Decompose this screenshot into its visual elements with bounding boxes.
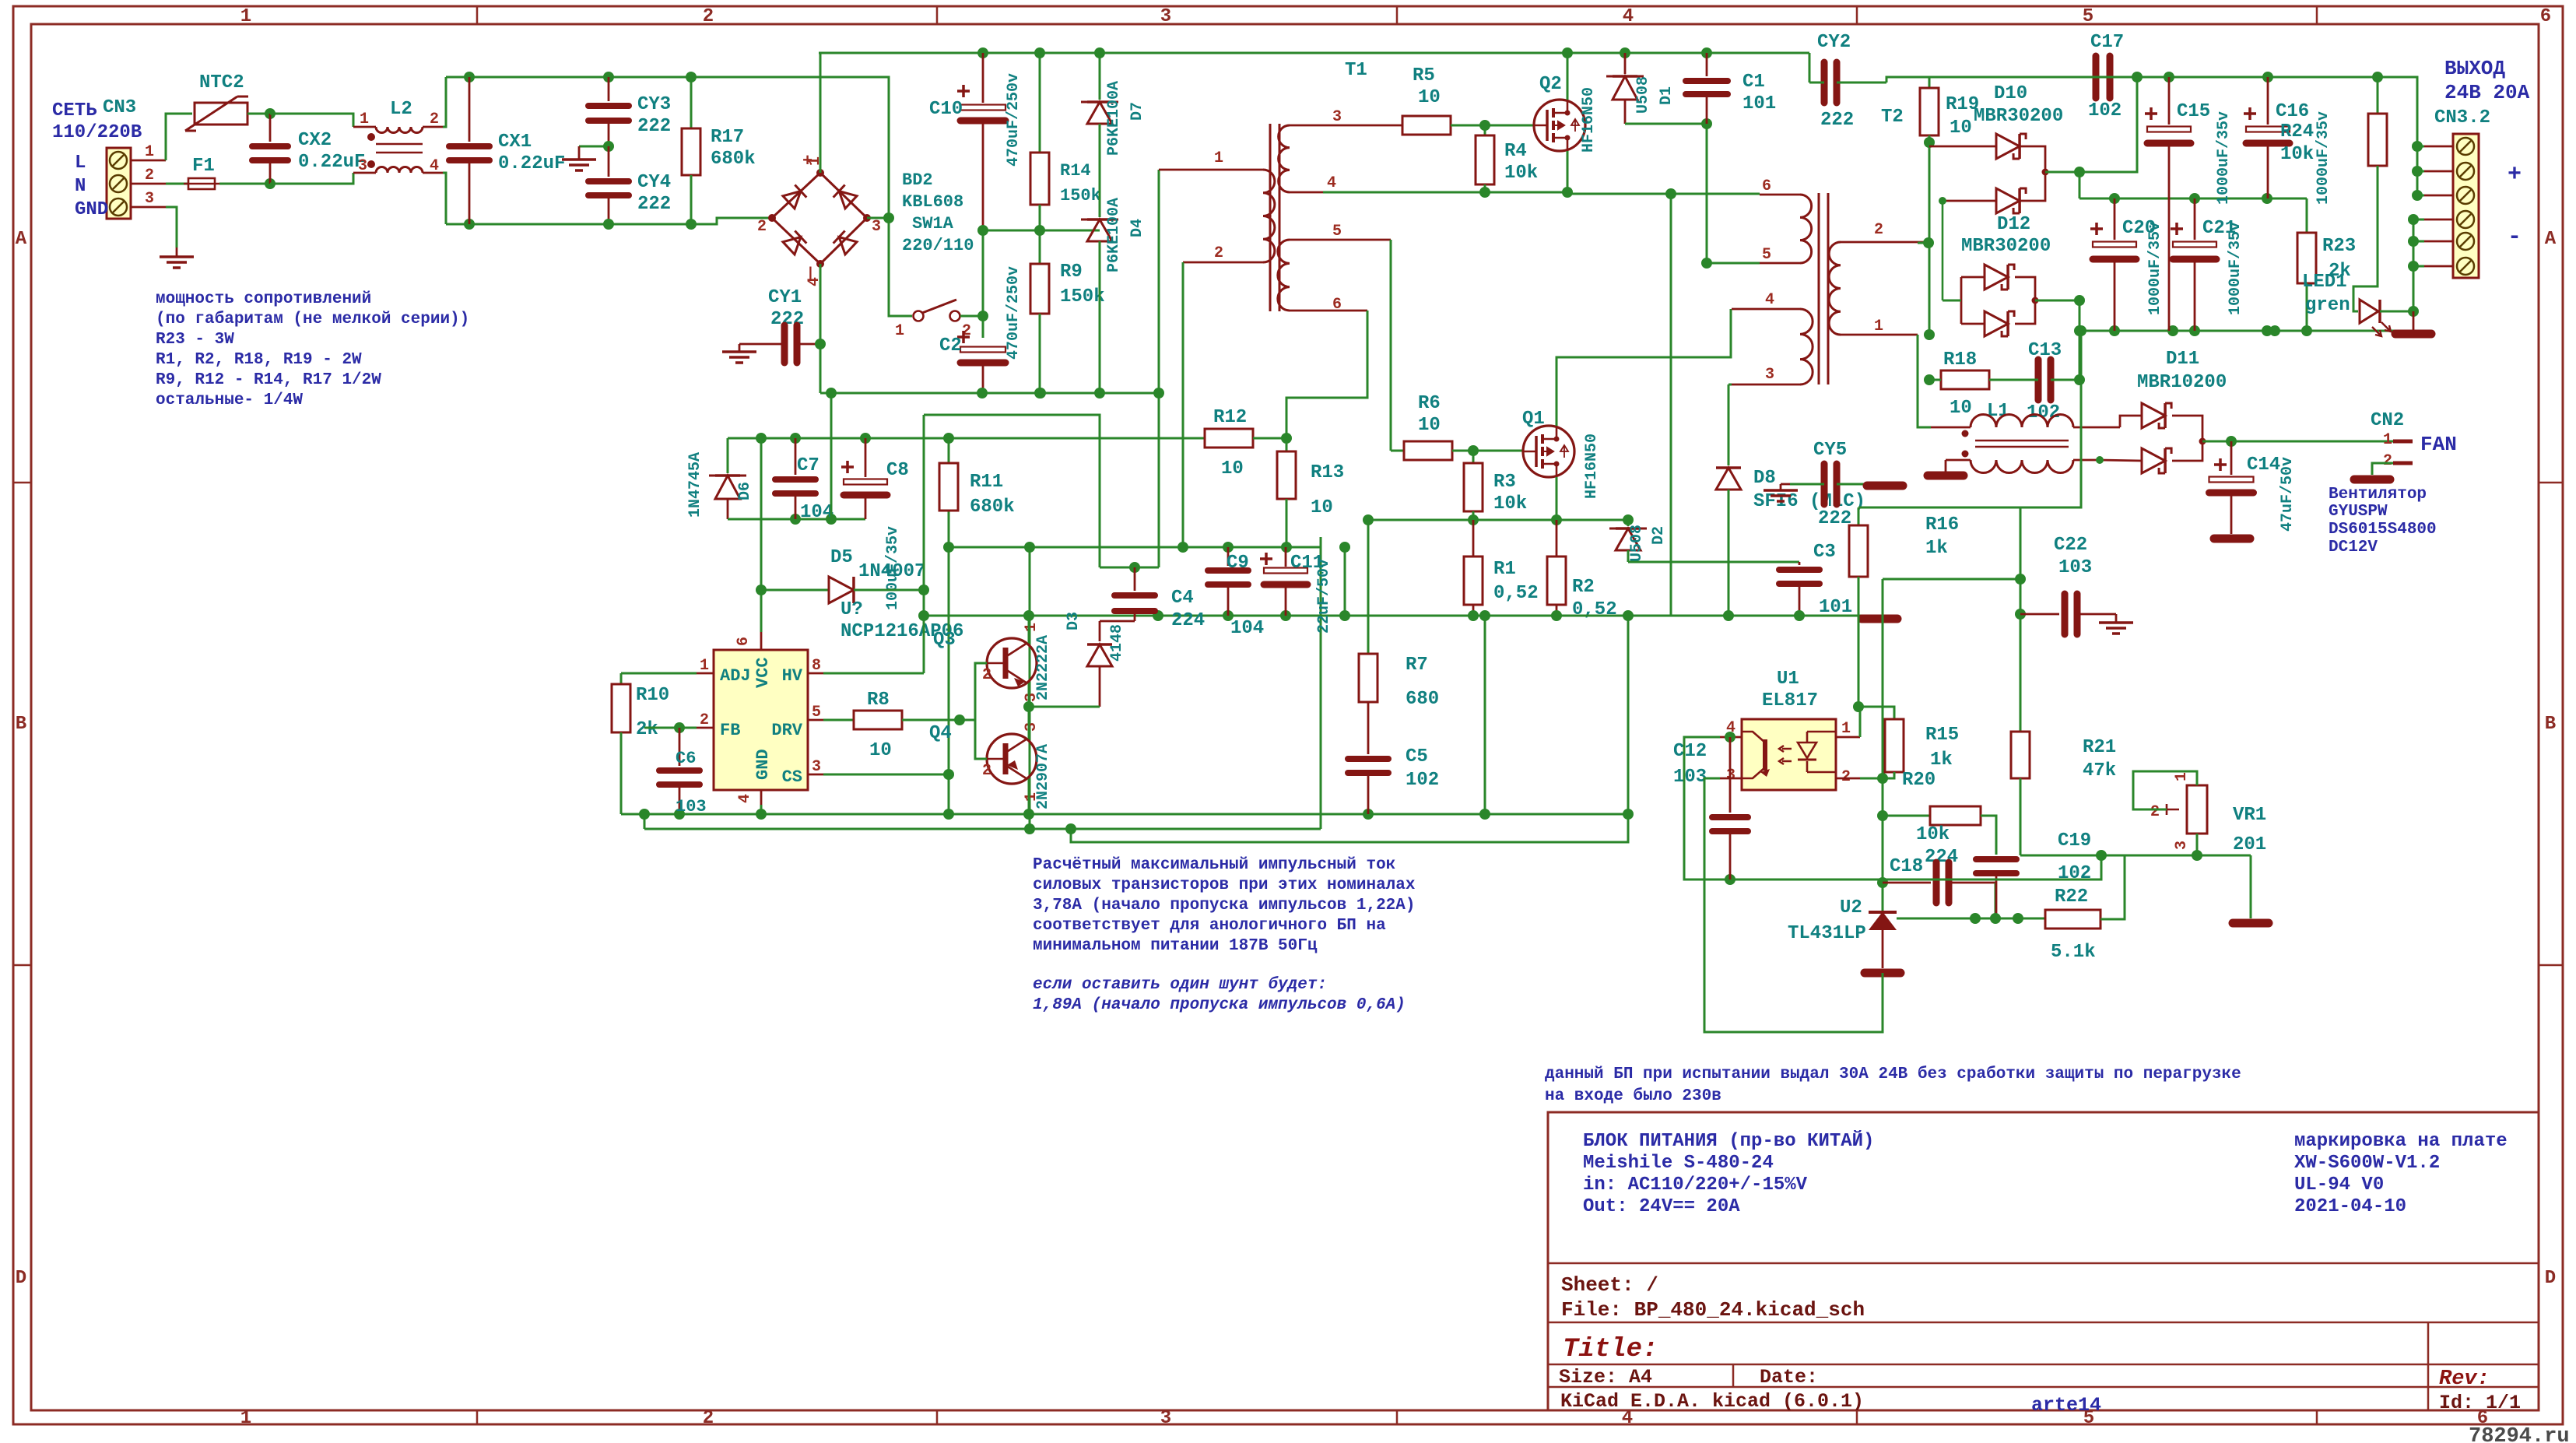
svg-text:1,89А (начало пропуска импульс: 1,89А (начало пропуска импульсов 0,6А)	[1033, 996, 1406, 1014]
resistor R12 in vcc rail	[1205, 429, 1253, 448]
svg-text:R5: R5	[1413, 65, 1435, 86]
wire emitter row to D3	[1029, 706, 1100, 708]
svg-text:R1, R2, R18, R19 - 2W: R1, R2, R18, R19 - 2W	[156, 351, 362, 369]
wire CN2 pin2 ground	[2372, 463, 2393, 475]
mid rail y703	[949, 546, 1321, 549]
svg-text:L: L	[75, 153, 86, 174]
svg-text:222: 222	[637, 194, 671, 215]
svg-text:5: 5	[1762, 246, 1771, 264]
svg-text:6: 6	[735, 637, 753, 646]
transistor Q2 HF16N50	[1534, 100, 1585, 151]
wire Q2 drain to rail	[1567, 53, 1569, 100]
svg-text:FB: FB	[720, 721, 740, 740]
svg-text:C19: C19	[2058, 830, 2091, 851]
svg-text:4: 4	[1623, 6, 1634, 27]
resistor R24	[2377, 77, 2379, 114]
wire C1 junction down across pin6 rail	[1706, 124, 1708, 194]
svg-text:Q3: Q3	[933, 630, 956, 651]
wire T2 pin5	[1707, 262, 1760, 265]
wire output sense riser	[2020, 331, 2081, 732]
schottky D12b lower pair	[1961, 323, 1985, 325]
svg-text:FAN: FAN	[2420, 433, 2457, 456]
wire T2 pin2 junction	[1918, 242, 1929, 244]
svg-text:2: 2	[982, 666, 991, 684]
svg-text:R2: R2	[1572, 577, 1595, 598]
resistor R3	[1472, 451, 1475, 463]
wire TL431 column	[1882, 579, 1884, 912]
wire R21 bottom rail	[2020, 855, 2251, 857]
svg-text:R1: R1	[1493, 559, 1516, 580]
ground CY1	[739, 343, 755, 346]
zener D1 U508	[1620, 47, 1630, 58]
wire HV riser	[923, 415, 925, 673]
svg-text:2: 2	[1214, 244, 1223, 262]
svg-text:3: 3	[1023, 722, 1041, 732]
svg-text:-: -	[2508, 224, 2522, 251]
svg-text:2: 2	[703, 6, 714, 27]
wire Q4 emitter to gnd rail	[1028, 779, 1030, 814]
svg-text:10: 10	[869, 740, 892, 761]
svg-text:102: 102	[2027, 402, 2060, 423]
svg-text:103: 103	[1673, 767, 1707, 788]
svg-text:3: 3	[358, 157, 367, 175]
svg-text:P6KE100A: P6KE100A	[1105, 81, 1123, 156]
svg-text:D12: D12	[1997, 214, 2030, 235]
svg-text:3,78А (начало пропуска импульс: 3,78А (начало пропуска импульсов 1,22А)	[1033, 897, 1415, 915]
svg-text:UL-94 V0: UL-94 V0	[2294, 1174, 2384, 1195]
svg-text:CN3.2: CN3.2	[2434, 107, 2490, 128]
svg-text:MBR30200: MBR30200	[1961, 236, 2051, 257]
resistor R11	[948, 438, 950, 463]
resistor R8	[854, 711, 902, 729]
riser y703 to y791 short	[1344, 547, 1346, 616]
svg-text:R15: R15	[1925, 725, 1959, 746]
svg-text:4: 4	[1765, 291, 1774, 309]
riser R11 CS column	[948, 511, 950, 814]
wire bridge pin4 down	[819, 264, 822, 393]
svg-text:8: 8	[812, 657, 821, 675]
resistor R2 shunt	[1556, 520, 1558, 556]
svg-text:102: 102	[2058, 863, 2091, 884]
wire R16 top link	[1858, 507, 2020, 509]
wire D1 to C1 junction	[1625, 123, 1707, 125]
svg-text:T1: T1	[1345, 60, 1367, 81]
wire CX2 to L2 pin1	[270, 114, 353, 127]
svg-text:0,52: 0,52	[1493, 583, 1539, 604]
wire D5 net to C4 node	[924, 415, 1100, 567]
svg-text:2: 2	[700, 711, 709, 729]
svg-text:3: 3	[1023, 693, 1041, 702]
svg-text:104: 104	[1230, 618, 1264, 639]
wire rail to bridge column	[691, 77, 912, 316]
fuse F1	[166, 183, 188, 185]
svg-text:3: 3	[1332, 108, 1342, 126]
T1 aux winding pins 5,6	[1290, 239, 1391, 241]
svg-text:5: 5	[2083, 6, 2093, 27]
svg-text:+: +	[2508, 162, 2522, 188]
svg-text:C10: C10	[929, 99, 963, 120]
svg-text:78294.ru: 78294.ru	[2469, 1425, 2570, 1443]
svg-text:D10: D10	[1994, 83, 2027, 104]
svg-text:CX1: CX1	[498, 132, 532, 153]
svg-text:102: 102	[2088, 100, 2122, 121]
svg-text:HV: HV	[782, 666, 803, 686]
connector CN3	[107, 148, 131, 219]
resistor R7	[1367, 520, 1370, 654]
wire gate to Q1	[1473, 450, 1523, 452]
resistor R16	[1858, 507, 1860, 525]
svg-text:СЕТЬ: СЕТЬ	[52, 100, 97, 121]
wire T2 pin3 down to D8	[1728, 384, 1732, 386]
wire T1 pin1 riser	[1158, 170, 1160, 567]
svg-text:MBR30200: MBR30200	[1974, 106, 2063, 127]
node gate Q1	[1468, 445, 1479, 456]
capacitor C14	[2214, 458, 2227, 471]
svg-text:101: 101	[1742, 93, 1776, 114]
wire input bottom rail	[446, 218, 772, 224]
title block	[1548, 1112, 2539, 1410]
svg-text:R7: R7	[1406, 655, 1428, 676]
svg-text:R13: R13	[1311, 462, 1344, 483]
svg-text:NTC2: NTC2	[199, 72, 244, 93]
wire Q4 collector	[1028, 707, 1030, 739]
T2 secondary winding 2-1	[1841, 241, 1928, 244]
pin 1 ADJ	[697, 672, 714, 675]
wire Q3 emitter junction	[1028, 683, 1030, 707]
resistor R20	[1883, 815, 1930, 817]
svg-text:KBL608: KBL608	[902, 192, 963, 212]
wire T1 pin4 to source rail	[1323, 191, 1567, 194]
resistor R4	[1484, 125, 1486, 135]
svg-text:222: 222	[1820, 110, 1854, 131]
svg-text:10k: 10k	[1916, 824, 1950, 845]
svg-text:D: D	[2545, 1268, 2556, 1289]
svg-text:2k: 2k	[636, 719, 658, 740]
svg-text:10k: 10k	[1493, 493, 1527, 514]
svg-text:Meishile S-480-24: Meishile S-480-24	[1583, 1153, 1774, 1174]
pin 4 GND	[760, 790, 763, 805]
resistor R1 shunt	[1472, 520, 1475, 556]
resistor R19	[1929, 76, 2137, 79]
svg-text:Rev:: Rev:	[2439, 1368, 2490, 1391]
wire C1 column to pin5	[1706, 194, 1708, 263]
pin 5 DRV	[808, 719, 823, 721]
thermistor NTC2	[195, 103, 247, 125]
primary ground rail y791	[924, 615, 1879, 617]
wire VR1 pin1 to wiper	[2133, 771, 2197, 809]
svg-text:R6: R6	[1418, 393, 1441, 414]
secondary gnd mid rail y255	[2079, 198, 2307, 200]
svg-text:U508: U508	[1628, 525, 1646, 562]
T1 secondary top pins 3,4	[1290, 125, 1401, 127]
wire mid rail	[983, 230, 1100, 232]
svg-text:HF16N50: HF16N50	[1580, 87, 1598, 153]
transistor Q1 HF16N50	[1523, 426, 1574, 477]
wire Q1 source down	[1556, 477, 1558, 520]
wire U1 pin3 loop to TL431 anode	[1704, 778, 1883, 1032]
node junction CY3 CY4	[603, 141, 614, 152]
svg-text:R22: R22	[2055, 887, 2088, 908]
svg-text:F1: F1	[192, 156, 215, 177]
resistor R13	[1286, 438, 1288, 451]
svg-text:U1: U1	[1777, 669, 1799, 690]
wire T1 pin5 riser to R6	[1390, 240, 1392, 451]
transistor Q3 2N2222A	[987, 638, 1037, 688]
svg-text:3: 3	[2173, 841, 2191, 850]
svg-text:C4: C4	[1171, 588, 1194, 609]
wire Q1 drain up to T2 pin4	[1556, 309, 1731, 426]
wire plus pins bridge	[2412, 141, 2423, 152]
resistor R5	[1401, 125, 1402, 127]
wire Q1 source net riser	[1670, 194, 1672, 616]
svg-text:Id: 1/1: Id: 1/1	[2439, 1392, 2521, 1414]
svg-text:C15: C15	[2177, 101, 2210, 122]
svg-text:силовых транзисторов при этих: силовых транзисторов при этих номиналах	[1033, 876, 1416, 894]
wire ref rail	[1897, 918, 2045, 920]
svg-text:10: 10	[1418, 415, 1441, 436]
svg-text:R12: R12	[1213, 407, 1247, 428]
svg-text:220/110: 220/110	[902, 236, 974, 255]
svg-text:EL817: EL817	[1762, 690, 1818, 711]
svg-text:на входе было 230в: на входе было 230в	[1545, 1087, 1721, 1105]
svg-text:D7: D7	[1128, 102, 1146, 121]
svg-text:мощность сопротивлений: мощность сопротивлений	[156, 290, 371, 308]
wire D4 down to rail505	[1099, 241, 1101, 393]
svg-text:GND: GND	[75, 199, 108, 220]
svg-text:N: N	[75, 176, 86, 197]
capacitor C2	[957, 331, 970, 343]
svg-text:HF16N50: HF16N50	[1583, 434, 1601, 499]
svg-text:C1: C1	[1742, 72, 1765, 93]
svg-text:3: 3	[812, 758, 821, 776]
svg-text:2021-04-10: 2021-04-10	[2294, 1196, 2406, 1217]
node R5 gate	[1479, 120, 1490, 131]
svg-text:CX2: CX2	[298, 130, 332, 151]
wire minus pins bridge	[2413, 219, 2415, 311]
pin 3 CS	[808, 774, 823, 776]
wire CY2 to C17	[1886, 77, 2085, 83]
primary return rail y505	[820, 392, 1159, 395]
capacitor C15	[2168, 77, 2171, 125]
wire LED cathode to minus node	[2380, 311, 2413, 313]
main HV rail top	[819, 52, 1809, 54]
svg-text:БЛОК ПИТАНИЯ (пр-во КИТАЙ): БЛОК ПИТАНИЯ (пр-во КИТАЙ)	[1583, 1130, 1874, 1152]
svg-text:D: D	[16, 1268, 26, 1289]
svg-text:4: 4	[1327, 174, 1336, 192]
svg-text:если оставить один шунт будет:: если оставить один шунт будет:	[1033, 976, 1327, 994]
svg-text:4: 4	[736, 794, 754, 803]
svg-text:R4: R4	[1504, 141, 1527, 162]
svg-text:A: A	[2545, 229, 2557, 250]
svg-text:in: AC110/220+/-15%V: in: AC110/220+/-15%V	[1583, 1174, 1808, 1195]
svg-text:22uF/50v: 22uF/50v	[1315, 559, 1333, 634]
svg-text:680: 680	[1406, 689, 1439, 710]
base bracket Q3 Q4	[975, 663, 987, 759]
svg-text:1: 1	[700, 657, 709, 675]
svg-text:2: 2	[703, 1408, 714, 1429]
ground CY5 left	[1781, 483, 1790, 486]
svg-text:0,52: 0,52	[1572, 599, 1617, 620]
svg-text:2: 2	[2150, 803, 2160, 821]
svg-text:C12: C12	[1673, 741, 1707, 762]
svg-text:(по габаритам (не мелкой серии: (по габаритам (не мелкой серии))	[156, 311, 469, 328]
ground mid Y caps	[579, 146, 609, 148]
svg-text:C2: C2	[939, 335, 962, 356]
capacitor C6	[674, 722, 685, 733]
svg-text:U508: U508	[1634, 76, 1652, 114]
pin 2 FB	[697, 727, 714, 729]
svg-text:R3: R3	[1493, 472, 1516, 493]
svg-text:D1: D1	[1658, 86, 1676, 105]
wire source rail to T2 pin6	[1567, 193, 1760, 195]
ground input	[176, 248, 178, 257]
lower return bus	[644, 828, 1321, 830]
svg-text:2: 2	[145, 167, 154, 184]
wire T1 pin2 riser	[1182, 262, 1184, 547]
capacitor C11	[1285, 547, 1287, 567]
pin 6 VCC	[760, 632, 763, 650]
svg-text:101: 101	[1819, 597, 1852, 618]
wire D12 anode riser	[1942, 201, 1944, 300]
svg-text:470uF/250v: 470uF/250v	[1005, 266, 1023, 360]
tvs diode D7	[1094, 47, 1105, 58]
svg-text:R21: R21	[2083, 737, 2116, 758]
svg-text:U2: U2	[1840, 897, 1862, 918]
svg-text:BD2: BD2	[902, 170, 933, 190]
wire CN3 pin1 to NTC2	[166, 114, 192, 160]
svg-text:470uF/250v: 470uF/250v	[1005, 73, 1023, 167]
svg-text:TL431LP: TL431LP	[1788, 923, 1866, 944]
diode D3 4148	[1100, 620, 1135, 623]
svg-text:1: 1	[2383, 431, 2392, 449]
svg-text:4148: 4148	[1108, 624, 1126, 662]
svg-text:Q1: Q1	[1522, 409, 1545, 430]
svg-text:A: A	[16, 229, 27, 250]
svg-text:C22: C22	[2054, 535, 2087, 556]
svg-text:5: 5	[1332, 223, 1342, 240]
svg-text:Sheet: /: Sheet: /	[1561, 1273, 1658, 1297]
svg-text:680k: 680k	[970, 497, 1015, 518]
svg-text:R24: R24	[2280, 121, 2314, 142]
svg-text:1000uF/35v: 1000uF/35v	[2227, 222, 2244, 315]
svg-text:KiCad E.D.A. kicad (6.0.1): KiCad E.D.A. kicad (6.0.1)	[1560, 1390, 1864, 1413]
svg-text:47k: 47k	[2083, 760, 2116, 781]
svg-text:C16: C16	[2276, 101, 2309, 122]
svg-text:2N2222A: 2N2222A	[1034, 635, 1052, 700]
svg-text:CY2: CY2	[1817, 32, 1851, 53]
svg-text:R10: R10	[636, 685, 669, 706]
svg-text:C7: C7	[797, 455, 819, 476]
svg-text:маркировка на плате: маркировка на плате	[2294, 1131, 2508, 1152]
svg-text:R20: R20	[1902, 770, 1936, 791]
svg-text:3: 3	[872, 218, 881, 236]
capacitor C8	[865, 438, 867, 477]
wire VR1 pin3 down	[2196, 834, 2199, 855]
svg-text:1: 1	[1214, 149, 1223, 167]
capacitor C7	[795, 438, 797, 475]
ground pad CY5 right	[1867, 482, 1903, 490]
capacitor CX2	[269, 114, 272, 142]
resistor R17	[686, 72, 697, 83]
node junction CX2 top	[265, 108, 275, 119]
capacitor C20	[2114, 198, 2116, 240]
svg-text:DRV: DRV	[771, 721, 802, 740]
snubber diode D2 U508	[1627, 520, 1630, 526]
wire NTC2 to CX2 node	[247, 113, 270, 115]
svg-text:GYUSPW: GYUSPW	[2329, 503, 2388, 521]
svg-text:1: 1	[806, 156, 824, 166]
svg-text:CY3: CY3	[637, 94, 671, 115]
tvs diode D4	[1087, 219, 1112, 241]
svg-text:данный БП при испытании выдал: данный БП при испытании выдал 30А 24В бе…	[1545, 1066, 2241, 1083]
wire CX2 to L2 pin3	[270, 173, 353, 184]
wire D7 to D4	[1099, 124, 1101, 217]
svg-text:0.22uF: 0.22uF	[298, 152, 365, 173]
resistor R21	[2011, 732, 2030, 778]
svg-text:2: 2	[1874, 221, 1883, 239]
svg-text:соответствует для анологичного: соответствует для анологичного БП на	[1033, 917, 1386, 935]
svg-text:R16: R16	[1925, 514, 1959, 535]
svg-text:224: 224	[1925, 847, 1958, 868]
svg-text:CS: CS	[782, 767, 802, 787]
svg-text:D6: D6	[736, 482, 754, 500]
svg-text:1: 1	[240, 1408, 251, 1429]
svg-text:110/220В: 110/220В	[52, 122, 142, 143]
svg-text:gren: gren	[2305, 295, 2350, 316]
svg-text:222: 222	[1818, 508, 1851, 529]
svg-text:2: 2	[1841, 768, 1851, 786]
svg-text:CN3: CN3	[103, 97, 136, 118]
wire D11 cathodes join	[2172, 416, 2202, 461]
vertical x2672 segments	[2079, 172, 2081, 198]
svg-text:R11: R11	[970, 472, 1003, 493]
svg-text:0.22uF: 0.22uF	[498, 153, 565, 174]
svg-text:1: 1	[2173, 772, 2191, 781]
svg-text:DS6015S4800: DS6015S4800	[2329, 521, 2437, 539]
svg-text:D8: D8	[1753, 468, 1776, 489]
wire Q3 collector to rail791	[1028, 616, 1030, 643]
capacitor C9	[1227, 547, 1230, 566]
ground LED	[2413, 311, 2415, 330]
wire D10 D12 cathodes join	[2020, 146, 2045, 201]
svg-text:T2: T2	[1881, 107, 1904, 128]
svg-text:1: 1	[360, 111, 369, 128]
bridge rectifier BD2	[772, 173, 867, 264]
svg-text:U?: U?	[841, 599, 863, 620]
node R1R2 junction risers	[1484, 616, 1486, 814]
T2 winding 6-5	[1760, 194, 1800, 196]
svg-text:3: 3	[1160, 1408, 1171, 1429]
capacitor C4	[1134, 567, 1136, 591]
ground pad L1 left	[1945, 460, 1947, 472]
svg-text:D2: D2	[1650, 526, 1668, 545]
svg-text:6: 6	[1332, 296, 1342, 314]
svg-text:1: 1	[240, 6, 251, 27]
svg-text:103: 103	[2058, 557, 2092, 578]
svg-text:1: 1	[1874, 318, 1883, 335]
svg-text:DC12V: DC12V	[2329, 539, 2378, 556]
svg-text:3: 3	[1765, 366, 1774, 384]
svg-text:5: 5	[812, 704, 821, 721]
resistor R9	[1039, 230, 1041, 264]
svg-text:C8: C8	[886, 460, 909, 481]
svg-text:1: 1	[895, 322, 904, 340]
svg-text:L2: L2	[390, 99, 412, 120]
svg-text:6: 6	[1762, 177, 1771, 195]
svg-text:C14: C14	[2247, 455, 2280, 476]
capacitor C16	[2267, 77, 2269, 125]
svg-text:Title:: Title:	[1563, 1335, 1658, 1364]
